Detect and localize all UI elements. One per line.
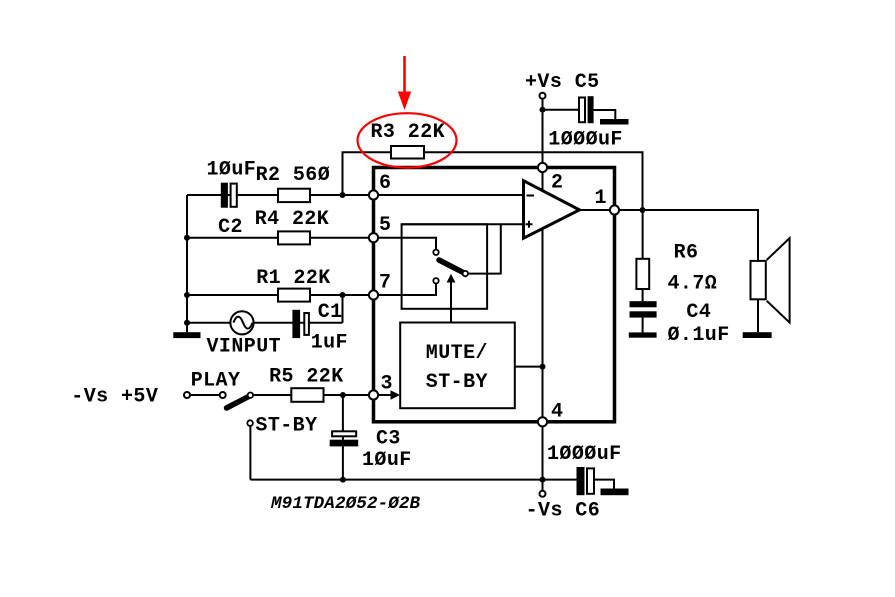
- svg-text:3: 3: [381, 373, 393, 396]
- junction node R5/C3: [340, 392, 346, 398]
- svg-text:1ØØØuF: 1ØØØuF: [547, 443, 622, 466]
- resistor R1: [278, 289, 310, 302]
- op-amp plus sign: [526, 221, 533, 228]
- resistor R6: [636, 259, 649, 289]
- capacitor C3: [330, 431, 359, 446]
- ground left rail: [173, 332, 200, 338]
- wire speaker to ground: [757, 300, 759, 332]
- svg-text:7: 7: [379, 272, 391, 295]
- junction node output/R6: [640, 207, 646, 213]
- pin 2 circle: [538, 163, 547, 172]
- wire pin7 to switch bottom contact: [378, 284, 436, 296]
- svg-text:C1: C1: [318, 301, 343, 324]
- svg-text:R3 22K: R3 22K: [371, 121, 446, 144]
- wire C3 branch: [342, 395, 344, 480]
- svg-text:C2: C2: [218, 216, 243, 239]
- svg-text:R6: R6: [674, 242, 699, 265]
- wire pin6 to op-amp minus input: [378, 194, 522, 196]
- terminal +Vs: [540, 93, 546, 99]
- IC box TDA2052: [374, 168, 615, 422]
- mute/st-by box U1b: [400, 323, 515, 409]
- pin 7 circle: [369, 290, 378, 299]
- play/st-by switch SW2 lever: [227, 396, 251, 408]
- junction node +Vs/C5: [540, 107, 546, 113]
- junction node -Vs/C6: [540, 477, 546, 483]
- resistor R4: [278, 231, 310, 244]
- ground C4: [629, 332, 657, 337]
- op-amp U1: [524, 181, 580, 239]
- capacitor C2: [221, 183, 237, 208]
- red highlight arrow: [403, 56, 406, 92]
- wire C1 branch: [342, 295, 344, 323]
- svg-text:PLAY: PLAY: [191, 370, 241, 393]
- svg-text:1ØØØuF: 1ØØØuF: [548, 129, 623, 152]
- junction node mute/pin4 net: [540, 364, 546, 370]
- wire -Vs terminal stub: [542, 480, 544, 491]
- wire C5 to ground: [594, 110, 616, 120]
- red highlight ellipse: [358, 113, 457, 167]
- svg-text:VINPUT: VINPUT: [207, 336, 282, 359]
- op-amp minus sign: [527, 195, 535, 197]
- wire st-by branch down: [249, 426, 251, 480]
- wire play switch poles: [190, 394, 220, 396]
- svg-text:-Vs +5V: -Vs +5V: [71, 386, 158, 409]
- wire R4 row to pin 5: [187, 237, 373, 239]
- wire +Vs stub down to pin 2: [542, 99, 544, 164]
- play/st-by switch SW2 terminal left: [184, 392, 190, 398]
- svg-text:M91TDA2Ø52-Ø2B: M91TDA2Ø52-Ø2B: [270, 494, 421, 514]
- svg-text:4: 4: [551, 401, 563, 424]
- wire feedback R3 net: node6 up, across top, down to output: [343, 152, 643, 210]
- play/st-by switch SW2 pivot: [248, 393, 253, 398]
- ground speaker: [743, 332, 772, 338]
- wire C6 to ground: [594, 480, 614, 489]
- svg-text:R2 56Ø: R2 56Ø: [256, 164, 331, 187]
- svg-text:6: 6: [379, 172, 391, 195]
- junction node rail/vinput: [184, 320, 190, 326]
- svg-text:+Vs C5: +Vs C5: [525, 71, 600, 94]
- svg-text:C3: C3: [376, 428, 401, 451]
- wire R5 row to pin 3: [253, 394, 371, 396]
- pin 6 circle: [369, 190, 378, 199]
- junction node R3/pin6: [340, 192, 346, 198]
- switch SW1 bottom contact: [433, 278, 438, 283]
- svg-text:-Vs C6: -Vs C6: [526, 500, 601, 523]
- ground C6: [601, 489, 629, 496]
- pin 3 input arrow: [391, 390, 401, 399]
- wire switch lever to op-amp plus input: [468, 224, 501, 273]
- svg-text:ST-BY: ST-BY: [255, 415, 317, 438]
- wire bottom -Vs rail: [250, 479, 576, 481]
- resistor R3: [391, 146, 424, 159]
- st-by contact: [247, 420, 253, 426]
- switch inner box: [402, 224, 488, 308]
- junction node rail/R1: [184, 292, 190, 298]
- wire vinput row: [187, 322, 343, 324]
- junction node R1/C1: [340, 292, 346, 298]
- wire left rail: [186, 195, 188, 332]
- pin 4 circle: [538, 417, 547, 426]
- svg-text:Ø.1uF: Ø.1uF: [668, 324, 730, 347]
- svg-text:MUTE/: MUTE/: [426, 342, 488, 365]
- pin 1 circle: [610, 205, 619, 214]
- svg-text:4.7Ω: 4.7Ω: [668, 273, 718, 296]
- svg-text:5: 5: [379, 214, 391, 237]
- junction node C3/bottom rail: [340, 477, 346, 483]
- wire output to speaker: [580, 210, 758, 261]
- mute control arrow: [450, 282, 452, 323]
- svg-text:C4: C4: [686, 301, 711, 324]
- svg-text:1ØuF: 1ØuF: [362, 449, 412, 472]
- pin 3 circle: [369, 390, 378, 399]
- wire pin4 down to -Vs node: [542, 422, 544, 480]
- capacitor C5: [579, 96, 594, 123]
- resistor R5: [291, 388, 323, 402]
- pin 5 circle: [369, 233, 378, 242]
- vinput source V1: [230, 311, 253, 334]
- svg-text:R5 22K: R5 22K: [269, 366, 344, 389]
- wire R6 branch: [642, 210, 644, 301]
- wire C4 to ground: [642, 318, 644, 333]
- switch SW1 lever: [439, 260, 465, 273]
- capacitor C1: [292, 310, 309, 338]
- wire +Vs to C5: [543, 109, 579, 111]
- wire pin2 to pin4 vertical (under op-amp): [542, 168, 544, 422]
- svg-text:1ØuF: 1ØuF: [207, 159, 257, 182]
- svg-text:R4 22K: R4 22K: [255, 208, 330, 231]
- junction node rail/R4: [184, 235, 190, 241]
- wire R1 row to pin 7: [187, 294, 373, 296]
- terminal -Vs: [540, 491, 546, 497]
- wire input top row C2 R2 to pin 6: [187, 194, 373, 196]
- wire mute box to pin2/4 net: [515, 366, 543, 368]
- switch SW1 inside IC: top contact: [433, 250, 438, 255]
- capacitor C6: [577, 467, 595, 495]
- wire inner box top to op-amp plus: [402, 223, 523, 225]
- resistor R2: [278, 189, 310, 202]
- speaker LS1: [751, 238, 790, 323]
- ground C5: [600, 119, 629, 125]
- svg-text:1: 1: [595, 187, 607, 210]
- svg-text:2: 2: [551, 172, 563, 195]
- svg-text:1uF: 1uF: [311, 332, 348, 355]
- wire pin5 to switch top contact: [378, 238, 436, 250]
- switch SW1 lever pivot circle: [463, 271, 468, 276]
- svg-text:ST-BY: ST-BY: [426, 371, 488, 394]
- svg-text:R1 22K: R1 22K: [256, 267, 331, 290]
- wire pin3 to arrow: [378, 394, 391, 396]
- capacitor C4: [630, 301, 657, 317]
- play/st-by switch SW2 terminal right: [220, 392, 226, 398]
